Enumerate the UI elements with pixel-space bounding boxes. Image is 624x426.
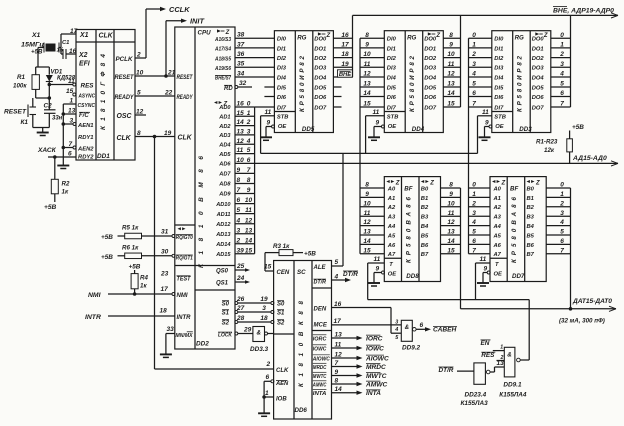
svg-text:RDY1: RDY1 bbox=[78, 135, 94, 141]
svg-text:10: 10 bbox=[447, 200, 455, 207]
svg-text:11: 11 bbox=[364, 210, 371, 217]
svg-text:MWTC: MWTC bbox=[366, 373, 387, 380]
svg-text:28: 28 bbox=[236, 315, 245, 322]
svg-text:24: 24 bbox=[236, 275, 245, 282]
svg-text:0: 0 bbox=[560, 182, 564, 189]
svg-text:AEN1: AEN1 bbox=[77, 123, 94, 129]
svg-text:3: 3 bbox=[560, 210, 564, 217]
svg-text:11: 11 bbox=[480, 256, 487, 263]
DD3 STB wire pin 11 to ALE line bbox=[478, 109, 492, 153]
svg-text:К1810ГФ84: К1810ГФ84 bbox=[100, 54, 107, 130]
svg-text:7: 7 bbox=[472, 101, 476, 108]
svg-text:INIT: INIT bbox=[190, 17, 205, 26]
svg-text:B0: B0 bbox=[527, 186, 535, 192]
svg-text:AD14: AD14 bbox=[215, 242, 231, 248]
ground (DD1 control pins) bbox=[57, 166, 69, 169]
svg-text:8: 8 bbox=[335, 377, 339, 384]
svg-text:1: 1 bbox=[472, 42, 476, 49]
svg-text:A0: A0 bbox=[493, 186, 502, 192]
svg-text:15: 15 bbox=[66, 88, 74, 95]
transceiver DD8 КР580ВА86 (data D8-D15) bbox=[384, 177, 440, 282]
svg-text:8: 8 bbox=[137, 130, 141, 137]
svg-text:2: 2 bbox=[471, 51, 476, 58]
svg-text:RG: RG bbox=[407, 35, 416, 42]
svg-text:13: 13 bbox=[363, 81, 371, 88]
ground (C2/RESET) bbox=[33, 128, 50, 136]
svg-text:9: 9 bbox=[485, 120, 489, 127]
svg-text:CSYNC: CSYNC bbox=[78, 103, 96, 109]
svg-text:OE: OE bbox=[495, 124, 505, 130]
svg-text:0: 0 bbox=[472, 32, 476, 39]
svg-text:CEN: CEN bbox=[277, 270, 290, 276]
wires A16-A19,BHE to DD5 latch inputs bbox=[235, 32, 274, 78]
svg-text:6: 6 bbox=[560, 90, 564, 97]
svg-text:16: 16 bbox=[237, 101, 245, 108]
power +5В (below R2) bbox=[44, 204, 57, 211]
wires S0,S1,S2 CPU to DD6 bbox=[218, 296, 274, 339]
bus ДАТ15-ДАТ0 bbox=[461, 298, 617, 325]
svg-text:4: 4 bbox=[559, 71, 564, 78]
svg-text:DI3: DI3 bbox=[494, 66, 504, 72]
svg-text:9: 9 bbox=[365, 191, 369, 198]
DD7 B wires to ДАТ bus with bit numbers bbox=[546, 182, 570, 255]
svg-text:R5 1к: R5 1к bbox=[122, 225, 139, 232]
svg-text:13: 13 bbox=[335, 331, 343, 338]
svg-text:12: 12 bbox=[136, 109, 144, 116]
svg-text:B4: B4 bbox=[421, 224, 429, 230]
node NMI input bbox=[88, 286, 175, 299]
svg-text:КР580ИР82: КР580ИР82 bbox=[299, 55, 306, 112]
svg-text:A6: A6 bbox=[387, 243, 396, 249]
capacitor C2 33н bbox=[44, 103, 63, 128]
svg-text:КР580ИР82: КР580ИР82 bbox=[516, 55, 523, 112]
DD6 command outputs IORC..INTA with labels bbox=[332, 331, 389, 397]
DD7 OE pin 9 grounded bbox=[477, 266, 490, 286]
svg-text:DI4: DI4 bbox=[387, 75, 397, 81]
svg-text:1к: 1к bbox=[62, 189, 69, 196]
svg-text:4: 4 bbox=[334, 273, 339, 280]
svg-text:5: 5 bbox=[137, 90, 141, 97]
svg-text:DD23.4: DD23.4 bbox=[465, 391, 487, 398]
svg-text:EFI: EFI bbox=[79, 61, 91, 68]
transceiver DD7 КР580ВА86 (data D0-D7) bbox=[490, 177, 546, 282]
svg-text:A2: A2 bbox=[493, 205, 502, 211]
svg-text:16: 16 bbox=[334, 301, 342, 308]
svg-text:10: 10 bbox=[363, 200, 371, 207]
svg-text:38: 38 bbox=[237, 32, 245, 39]
DD8 A wires from bit rail 8-15 bbox=[360, 182, 384, 255]
DD5 riser to АДР bus bbox=[352, 15, 354, 77]
svg-text:T: T bbox=[389, 262, 393, 268]
svg-text:9: 9 bbox=[449, 42, 453, 49]
svg-text:A7: A7 bbox=[493, 252, 502, 258]
DD8 B wires to ДАТ bus with bit numbers bbox=[441, 182, 461, 255]
svg-text:К1: К1 bbox=[21, 119, 29, 126]
svg-text:A17/S4: A17/S4 bbox=[214, 47, 231, 53]
svg-text:IORC: IORC bbox=[366, 335, 383, 342]
DD5 DO0-DO3 wires to АДР bus with bit numbers 16-19 bbox=[333, 32, 352, 68]
svg-text:ВНЕ: ВНЕ bbox=[339, 72, 352, 78]
svg-text:S1: S1 bbox=[222, 310, 230, 316]
wire +5В node to R1/VD1 bbox=[36, 67, 50, 75]
DD4 OE pin 9 grounded bbox=[368, 120, 385, 141]
svg-text:C1: C1 bbox=[62, 40, 69, 46]
svg-text:12: 12 bbox=[237, 138, 245, 145]
svg-text:T: T bbox=[495, 262, 499, 268]
svg-text:SC: SC bbox=[297, 269, 306, 276]
svg-text:B2: B2 bbox=[421, 205, 429, 211]
svg-text:DI2: DI2 bbox=[494, 56, 504, 62]
svg-text:DI1: DI1 bbox=[277, 46, 286, 52]
svg-text:A18/S5: A18/S5 bbox=[214, 56, 232, 62]
svg-text:AD7: AD7 bbox=[218, 172, 231, 178]
bus АД15-АД0 horizontal line bbox=[255, 155, 618, 166]
svg-text:MCE: MCE bbox=[314, 323, 328, 329]
svg-text:3: 3 bbox=[472, 61, 476, 68]
svg-text:8: 8 bbox=[449, 32, 453, 39]
svg-text:NMI: NMI bbox=[177, 293, 188, 299]
svg-text:B7: B7 bbox=[527, 252, 535, 258]
svg-text:8: 8 bbox=[449, 182, 453, 189]
svg-text:DI6: DI6 bbox=[387, 95, 397, 101]
svg-text:11: 11 bbox=[374, 256, 381, 263]
svg-text:DO6: DO6 bbox=[424, 95, 437, 101]
svg-text:RES: RES bbox=[81, 84, 94, 90]
svg-text:9: 9 bbox=[267, 120, 271, 127]
svg-text:13: 13 bbox=[447, 81, 455, 88]
svg-text:7: 7 bbox=[560, 101, 564, 108]
svg-text:A2: A2 bbox=[387, 205, 396, 211]
svg-text:3: 3 bbox=[247, 129, 251, 136]
svg-text:2: 2 bbox=[246, 119, 251, 126]
svg-text:8: 8 bbox=[365, 182, 369, 189]
svg-text:10: 10 bbox=[447, 51, 455, 58]
latch DD5 КР580ИР82 (address A16-A19/BHE) bbox=[274, 31, 333, 133]
svg-text:5: 5 bbox=[472, 229, 476, 236]
svg-text:IOWC: IOWC bbox=[313, 346, 327, 352]
net CCLK bbox=[135, 5, 190, 59]
svg-text:0: 0 bbox=[560, 32, 564, 39]
DD8 B rail to ДАТ bus bbox=[460, 188, 462, 309]
svg-text:15: 15 bbox=[363, 247, 371, 254]
svg-text:7: 7 bbox=[69, 141, 73, 148]
svg-text:RQ/GT0: RQ/GT0 bbox=[176, 235, 193, 241]
svg-text:+5В: +5В bbox=[31, 49, 43, 56]
svg-text:3: 3 bbox=[560, 61, 564, 68]
svg-text:DI4: DI4 bbox=[494, 75, 504, 81]
DD8 T pin 11 wire to T net bbox=[368, 256, 385, 299]
svg-text:11: 11 bbox=[245, 207, 252, 214]
svg-text:DI0: DI0 bbox=[277, 37, 287, 43]
stub OSC pin 12 bbox=[135, 109, 146, 116]
AD0-AD15 ladder wires with pin and bit numbers bbox=[235, 101, 255, 255]
node INTR input bbox=[85, 308, 175, 321]
svg-text:DI7: DI7 bbox=[387, 105, 397, 111]
wire READY DD1-CPU bbox=[135, 90, 175, 97]
svg-text:14: 14 bbox=[335, 386, 343, 393]
svg-text:DI1: DI1 bbox=[387, 46, 396, 52]
svg-text:9: 9 bbox=[335, 369, 339, 376]
svg-text:B7: B7 bbox=[421, 252, 429, 258]
svg-text:9: 9 bbox=[376, 120, 380, 127]
latch DD4 КР580ИР82 (address AD8-AD15) bbox=[384, 31, 443, 133]
svg-text:15: 15 bbox=[447, 101, 455, 108]
svg-text:AD9: AD9 bbox=[218, 192, 231, 198]
svg-text:DT/R: DT/R bbox=[314, 280, 327, 286]
svg-text:6: 6 bbox=[472, 238, 476, 245]
svg-text:A1: A1 bbox=[387, 196, 395, 202]
gate DD23.4 К155ЛА3 (DT/R inverter) bbox=[439, 360, 505, 407]
svg-text:САВЕН: САВЕН bbox=[433, 327, 457, 334]
svg-text:ДАТ15-ДАТ0: ДАТ15-ДАТ0 bbox=[572, 298, 612, 305]
svg-text:DI0: DI0 bbox=[494, 37, 504, 43]
svg-text:17: 17 bbox=[334, 318, 342, 325]
svg-text:R1-R23: R1-R23 bbox=[536, 139, 558, 146]
svg-text:11: 11 bbox=[68, 78, 75, 85]
svg-text:A3: A3 bbox=[493, 215, 502, 221]
svg-text:DO2: DO2 bbox=[532, 56, 545, 62]
svg-text:AD15: AD15 bbox=[215, 252, 231, 258]
svg-text:10: 10 bbox=[363, 51, 371, 58]
svg-text:DD2: DD2 bbox=[196, 341, 209, 348]
svg-text:DO7: DO7 bbox=[424, 105, 437, 111]
DD5 DI5-DI6 unused stubs bbox=[264, 87, 274, 97]
svg-text:AD10: AD10 bbox=[215, 202, 231, 208]
svg-text:Z: Z bbox=[395, 180, 400, 186]
DD4 STB wire pin 11 to ALE line bbox=[366, 109, 385, 153]
svg-text:INTA: INTA bbox=[366, 390, 381, 397]
svg-text:ALE: ALE bbox=[313, 265, 327, 271]
svg-text:16: 16 bbox=[341, 32, 349, 39]
svg-text:DO3: DO3 bbox=[424, 66, 437, 72]
DD5 STB wire pin 11 to ALE line bbox=[261, 109, 275, 153]
DD7 T pin 11 wire to T net bbox=[476, 256, 491, 299]
svg-text:11: 11 bbox=[448, 210, 455, 217]
svg-text:12: 12 bbox=[363, 71, 371, 78]
circles on DD1 inverted pins bbox=[66, 88, 76, 96]
svg-text:EN: EN bbox=[481, 340, 490, 347]
svg-text:DI5: DI5 bbox=[387, 85, 397, 91]
svg-text:9: 9 bbox=[484, 266, 488, 273]
svg-text:4: 4 bbox=[394, 327, 398, 333]
svg-text:A3: A3 bbox=[387, 215, 396, 221]
svg-text:6: 6 bbox=[472, 90, 476, 97]
svg-text:2: 2 bbox=[500, 355, 504, 361]
svg-text:DI0: DI0 bbox=[387, 37, 397, 43]
svg-text:6: 6 bbox=[247, 157, 251, 164]
svg-text:КР580ИР82: КР580ИР82 bbox=[409, 55, 416, 112]
svg-text:DO5: DO5 bbox=[314, 85, 327, 91]
svg-text:A1: A1 bbox=[493, 196, 501, 202]
svg-text:A5: A5 bbox=[387, 233, 396, 239]
svg-text:4: 4 bbox=[246, 138, 251, 145]
svg-text:NMI: NMI bbox=[88, 292, 101, 299]
CPU AD0-AD15 pin names bbox=[215, 105, 231, 258]
svg-text:Z: Z bbox=[535, 180, 540, 186]
resistor R5 1к (RQ/GT0 pull-up) bbox=[101, 225, 175, 242]
svg-text:DT/R: DT/R bbox=[343, 271, 358, 278]
svg-text:13: 13 bbox=[447, 229, 455, 236]
svg-text:DI2: DI2 bbox=[387, 56, 397, 62]
svg-text:DI5: DI5 bbox=[277, 85, 287, 91]
svg-text:Z: Z bbox=[429, 180, 434, 186]
svg-text:DO7: DO7 bbox=[532, 105, 545, 111]
svg-text:DD3: DD3 bbox=[519, 126, 532, 133]
svg-text:15МГц: 15МГц bbox=[21, 42, 44, 49]
svg-text:27: 27 bbox=[236, 305, 245, 312]
svg-text:2: 2 bbox=[136, 52, 141, 59]
svg-text:AEN2: AEN2 bbox=[77, 147, 94, 153]
svg-text:DO3: DO3 bbox=[314, 66, 327, 72]
resistor R6 1к (RQ/GT1 pull-up) bbox=[101, 244, 175, 260]
svg-text:Z: Z bbox=[543, 33, 548, 39]
svg-text:RQ/GT1: RQ/GT1 bbox=[176, 255, 193, 261]
svg-text:8: 8 bbox=[237, 177, 241, 184]
svg-text:17: 17 bbox=[161, 286, 169, 293]
svg-text:CLK: CLK bbox=[99, 33, 114, 40]
DD5 DO5-DO7 unused stubs bbox=[333, 87, 341, 107]
svg-text:2: 2 bbox=[559, 200, 564, 207]
svg-text:+5В: +5В bbox=[101, 254, 113, 261]
svg-text:12к: 12к bbox=[544, 147, 555, 154]
resistor R3 1к (CEN pull-up) bbox=[264, 243, 316, 271]
svg-text:15: 15 bbox=[447, 247, 455, 254]
svg-text:A4: A4 bbox=[493, 224, 502, 230]
svg-text:DD4: DD4 bbox=[412, 126, 425, 133]
svg-text:RESET: RESET bbox=[4, 109, 27, 116]
svg-text:STB: STB bbox=[387, 115, 399, 121]
svg-text:19: 19 bbox=[341, 61, 349, 68]
svg-text:0: 0 bbox=[247, 101, 251, 108]
svg-text:AD1: AD1 bbox=[218, 115, 230, 121]
svg-text:9: 9 bbox=[365, 42, 369, 49]
svg-text:7: 7 bbox=[472, 247, 476, 254]
resistor R2 1к bbox=[51, 157, 70, 202]
vertical AD bus rail at CPU bbox=[254, 107, 256, 254]
svg-text:12: 12 bbox=[335, 351, 343, 358]
svg-text:QS1: QS1 bbox=[216, 281, 229, 287]
svg-text:12: 12 bbox=[245, 217, 253, 224]
svg-text:11: 11 bbox=[448, 61, 455, 68]
svg-text:DO1: DO1 bbox=[314, 46, 326, 52]
svg-text:DO0: DO0 bbox=[424, 37, 437, 43]
crystal X1 15МГц bbox=[21, 32, 61, 53]
latch DD3 КР580ИР82 (address AD0-AD7) bbox=[492, 31, 551, 133]
svg-text:DEN: DEN bbox=[314, 307, 327, 313]
svg-text:OE: OE bbox=[388, 271, 398, 277]
svg-text:TEST: TEST bbox=[177, 277, 192, 283]
svg-text:B3: B3 bbox=[421, 215, 429, 221]
svg-text:32: 32 bbox=[239, 80, 247, 87]
svg-text:DO4: DO4 bbox=[314, 75, 327, 81]
svg-text:Z: Z bbox=[326, 33, 331, 39]
svg-text:DO4: DO4 bbox=[532, 75, 545, 81]
svg-text:4: 4 bbox=[471, 71, 476, 78]
svg-text:B6: B6 bbox=[527, 243, 535, 249]
svg-text:DO7: DO7 bbox=[314, 105, 327, 111]
svg-text:(32 мА, 300 пФ): (32 мА, 300 пФ) bbox=[559, 318, 605, 325]
svg-text:5: 5 bbox=[247, 147, 251, 154]
wire CSYNC/F/C/AEN1/AEN2 to ground bbox=[62, 98, 76, 166]
svg-text:19: 19 bbox=[164, 130, 172, 137]
svg-text:DD3.3: DD3.3 bbox=[250, 346, 269, 353]
svg-text:&: & bbox=[507, 352, 512, 359]
svg-text:AD8: AD8 bbox=[218, 182, 231, 188]
gate DD9.2 (САВЕН) bbox=[401, 320, 457, 351]
svg-text:AD12: AD12 bbox=[215, 222, 231, 228]
svg-text:3: 3 bbox=[237, 227, 241, 234]
resistor R4 1к (NMI pull-up) bbox=[129, 264, 149, 296]
svg-text:STB: STB bbox=[494, 115, 506, 121]
svg-text:14: 14 bbox=[363, 238, 371, 245]
svg-text:100к: 100к bbox=[13, 83, 27, 90]
svg-text:7: 7 bbox=[247, 167, 251, 174]
svg-text:17: 17 bbox=[70, 28, 78, 35]
svg-text:DO1: DO1 bbox=[532, 46, 544, 52]
svg-text:29: 29 bbox=[243, 327, 252, 334]
svg-text:33: 33 bbox=[167, 326, 175, 333]
svg-text:DD7: DD7 bbox=[512, 273, 525, 280]
wire LOCK to gate DD3.3 bbox=[235, 327, 253, 336]
svg-text:B1: B1 bbox=[527, 196, 534, 202]
svg-text:4: 4 bbox=[236, 217, 241, 224]
DD3 DO wires to АДР bus with bit numbers bbox=[551, 32, 571, 108]
svg-text:1: 1 bbox=[265, 390, 269, 397]
svg-text:AIOWC: AIOWC bbox=[312, 356, 330, 362]
svg-text:+5В: +5В bbox=[304, 251, 316, 258]
node ХАСК bbox=[37, 147, 76, 158]
svg-text:5: 5 bbox=[237, 207, 241, 214]
svg-text:DO6: DO6 bbox=[532, 95, 545, 101]
svg-text:17: 17 bbox=[341, 42, 349, 49]
svg-text:DI7: DI7 bbox=[277, 105, 287, 111]
svg-text:0: 0 bbox=[472, 182, 476, 189]
svg-text:A0: A0 bbox=[387, 186, 396, 192]
svg-text:18: 18 bbox=[341, 51, 349, 58]
svg-text:DO6: DO6 bbox=[314, 95, 327, 101]
svg-text:Z: Z bbox=[435, 33, 440, 39]
svg-text:B0: B0 bbox=[421, 186, 429, 192]
svg-text:IOWC: IOWC bbox=[366, 345, 384, 352]
svg-text:31: 31 bbox=[161, 229, 169, 236]
svg-text:OSC: OSC bbox=[117, 113, 133, 120]
svg-text:Z: Z bbox=[501, 180, 506, 186]
DD5 OE pin 9 grounded bbox=[260, 120, 275, 141]
svg-text:MN/MX: MN/MX bbox=[176, 333, 193, 339]
IC DD1 К1810ГФ84 clock generator bbox=[76, 30, 135, 161]
node DT/R output bbox=[332, 271, 359, 282]
svg-text:RG: RG bbox=[515, 35, 524, 42]
svg-text:DT/R: DT/R bbox=[439, 367, 454, 374]
svg-text:AEN: AEN bbox=[275, 381, 289, 387]
svg-text:12: 12 bbox=[363, 219, 371, 226]
svg-text:R2: R2 bbox=[62, 181, 70, 188]
wire RESET DD1-CPU bbox=[135, 70, 176, 77]
svg-text:10: 10 bbox=[136, 70, 144, 77]
wire CLK DD1-CPU and to DD6 bbox=[135, 130, 274, 369]
svg-text:A19/S6: A19/S6 bbox=[214, 66, 232, 72]
svg-text:13: 13 bbox=[237, 129, 245, 136]
svg-text:15: 15 bbox=[237, 110, 245, 117]
svg-text:DI1: DI1 bbox=[494, 46, 503, 52]
svg-text:R4: R4 bbox=[140, 275, 148, 282]
svg-text:AD11: AD11 bbox=[216, 212, 231, 218]
svg-text:3: 3 bbox=[472, 210, 476, 217]
svg-text:BF: BF bbox=[510, 186, 518, 193]
svg-text:AD4: AD4 bbox=[218, 142, 231, 148]
wire ALE pin 5 to riser bbox=[332, 259, 344, 266]
DD3 DI wires from bit rail 0-7 bbox=[469, 32, 492, 108]
